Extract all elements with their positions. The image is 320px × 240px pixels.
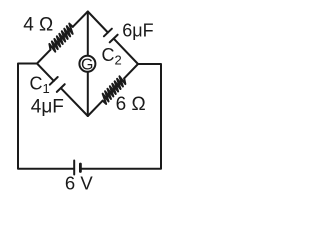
svg-text:6 Ω: 6 Ω [116,94,146,115]
svg-text:6 V: 6 V [65,173,93,194]
svg-text:4μF: 4μF [31,96,64,117]
svg-text:G: G [81,57,93,74]
svg-text:6μF: 6μF [122,20,153,40]
svg-text:4 Ω: 4 Ω [23,14,53,35]
